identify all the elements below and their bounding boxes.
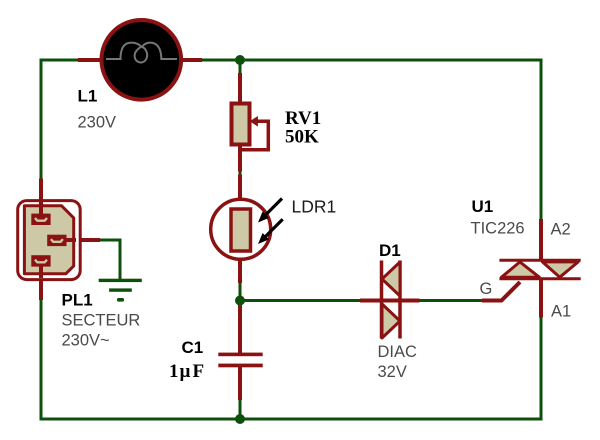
wire middle column below C1 (239, 367, 242, 419)
LDR1 light arrow 2 (258, 219, 283, 244)
wire PL1 neutral lead inside body (39, 262, 43, 278)
potentiometer RV1 (232, 104, 269, 150)
LDR1 (211, 199, 271, 259)
PL1 pin middle (earth) (47, 235, 66, 246)
svg-text:PL1: PL1 (62, 291, 93, 310)
wire PL1 earth lead inside body (62, 238, 76, 242)
pin stub C1 bottom (238, 367, 242, 400)
triac U1 (499, 260, 580, 279)
wire right rail upper (540, 59, 543, 222)
wire PL1 live lead inside body (39, 202, 43, 218)
LDR1 light arrow 1 (258, 199, 282, 223)
pin stub lamp left (78, 58, 102, 62)
pin stub DIAC (both leads through body) (360, 299, 420, 303)
diac D1 (382, 261, 401, 339)
svg-text:32V: 32V (378, 363, 407, 381)
svg-text:U1: U1 (472, 197, 494, 216)
pin stub C1 top (238, 305, 242, 353)
wire gate row (node to DIAC to triac gate) (240, 299, 502, 302)
svg-text:DIAC: DIAC (378, 343, 418, 361)
ground (99, 279, 142, 302)
PL1 pin top (live) (31, 214, 50, 225)
wire top rail (40, 59, 543, 62)
svg-text:1µF: 1µF (169, 361, 204, 382)
wire right rail lower (540, 316, 543, 421)
pin stub PL1 earth (64, 238, 100, 242)
connector PL1 (18, 201, 80, 280)
node junction top (235, 55, 245, 65)
node junction bottom (235, 414, 245, 424)
node junction gate row (235, 296, 245, 306)
svg-text:230V~: 230V~ (62, 331, 110, 349)
svg-text:TIC226: TIC226 (471, 220, 525, 238)
pin stub triac A2 (539, 219, 543, 261)
svg-text:LDR1: LDR1 (292, 197, 337, 217)
pin stub LDR1 top (238, 175, 242, 201)
svg-text:D1: D1 (379, 241, 401, 260)
pin stub PL1 bottom (39, 263, 43, 300)
lamp L1 (102, 20, 182, 100)
svg-text:L1: L1 (78, 87, 98, 106)
wire bottom rail (40, 418, 543, 421)
pin stub RV1 top (238, 73, 242, 104)
svg-text:SECTEUR: SECTEUR (62, 312, 141, 330)
svg-text:230V: 230V (78, 114, 117, 132)
PL1 pin bottom (neutral) (31, 255, 50, 266)
capacitor C1 (218, 353, 262, 368)
pin stub LDR1 bottom (238, 259, 242, 283)
svg-text:A2: A2 (551, 221, 571, 239)
pin stub lamp right (181, 58, 202, 62)
pin stub PL1 top (39, 179, 43, 217)
svg-text:A1: A1 (551, 303, 571, 321)
svg-text:C1: C1 (182, 338, 204, 357)
pin stub RV1 bottom (238, 144, 242, 172)
wire PL1 earth branch (66, 240, 120, 281)
pin stub triac A1 (539, 278, 543, 318)
pin stub triac gate (482, 282, 520, 301)
svg-text:G: G (480, 280, 493, 298)
wire middle column (RV1-LDR1-C1 branch) (239, 60, 242, 353)
wire left rail (40, 59, 43, 421)
svg-text:50K: 50K (285, 127, 319, 148)
